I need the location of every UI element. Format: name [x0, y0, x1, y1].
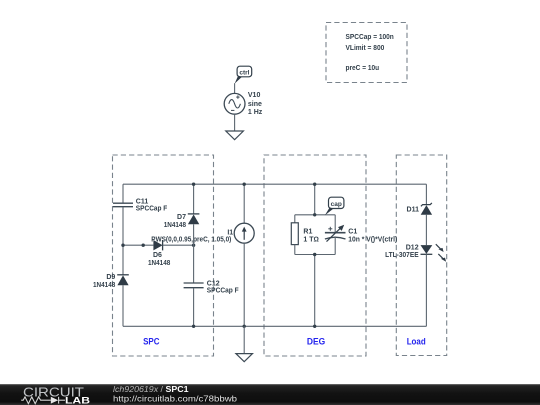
DEG block box (dashed): [264, 155, 366, 356]
svg-text:ctrl: ctrl: [239, 70, 249, 77]
node dot DEG bottom: [313, 325, 316, 328]
svg-text:SPCCap = 100n: SPCCap = 100n: [346, 34, 394, 41]
capacitor C12: [184, 280, 240, 294]
wire D6 row left: [123, 244, 153, 246]
wire I1 lower: [243, 243, 245, 326]
wire C12 lower: [193, 288, 195, 326]
svg-text:D7: D7: [177, 214, 186, 221]
parameter box (dashed): [326, 23, 407, 83]
node dot DEG rail top: [313, 213, 316, 216]
node dot DEG rail bottom: [313, 253, 316, 256]
svg-text:sine: sine: [248, 101, 262, 108]
svg-text:1 Hz: 1 Hz: [248, 109, 263, 116]
node dot left tee: [121, 244, 124, 247]
node dot D6 tee: [192, 244, 195, 247]
node dot D6 anode: [142, 244, 145, 247]
wire left branch lower: [122, 285, 124, 326]
footer bar: [0, 384, 540, 405]
wire D7 to C12: [193, 224, 195, 283]
svg-text:10n * V()*V(ctrl): 10n * V()*V(ctrl): [348, 237, 397, 244]
wire Load lower: [425, 254, 427, 326]
svg-text:LTL-307EE: LTL-307EE: [385, 252, 419, 259]
svg-text:R1: R1: [303, 229, 312, 236]
LED D12: [385, 244, 446, 262]
node dot top D7: [192, 183, 195, 186]
logo resistor-diode line: [21, 397, 65, 404]
node flag cap: [325, 197, 344, 215]
current source I1: [227, 223, 254, 243]
svg-text:1 TΩ: 1 TΩ: [303, 236, 319, 243]
svg-text:SPCCap F: SPCCap F: [207, 288, 239, 295]
wire bottom rail: [123, 325, 426, 327]
wire top rail: [123, 183, 426, 185]
ground (main): [236, 354, 253, 362]
wire V10 to ground: [234, 114, 236, 131]
node flag ctrl: [235, 66, 252, 83]
capacitor C11: [113, 198, 168, 212]
wire Load upper: [425, 184, 427, 204]
ground (V10): [226, 131, 244, 140]
svg-text:C12: C12: [207, 280, 220, 287]
SPC block box (dashed): [113, 155, 214, 356]
svg-text:C1: C1: [348, 229, 357, 236]
svg-text:C11: C11: [136, 198, 149, 205]
svg-text:lch920619x / SPC1: lch920619x / SPC1: [113, 385, 189, 394]
wire ground stem: [243, 326, 245, 353]
svg-text:http://circuitlab.com/c78bbwb: http://circuitlab.com/c78bbwb: [113, 394, 238, 403]
voltage source V10: [224, 92, 263, 116]
svg-text:V10: V10: [248, 92, 261, 99]
zener diode D11: [407, 203, 433, 215]
resistor R1: [291, 215, 319, 255]
svg-text:D11: D11: [407, 207, 420, 214]
svg-text:1N4148: 1N4148: [148, 260, 170, 267]
svg-text:D6: D6: [153, 252, 162, 259]
svg-text:LAB: LAB: [65, 395, 91, 405]
svg-text:VLimit = 800: VLimit = 800: [346, 45, 385, 52]
svg-text:preC = 10u: preC = 10u: [346, 65, 380, 72]
svg-text:DEG: DEG: [307, 337, 325, 347]
svg-text:cap: cap: [331, 201, 342, 208]
svg-text:SPCCap F: SPCCap F: [136, 206, 168, 213]
wire left branch upper: [122, 184, 124, 203]
svg-text:Load: Load: [407, 337, 426, 347]
node dot I1 bottom: [243, 325, 246, 328]
node dot bottom C12: [192, 325, 195, 328]
diode D7: [164, 214, 200, 229]
svg-text:I1: I1: [227, 230, 233, 237]
node dot DEG top: [313, 183, 316, 186]
svg-text:D12: D12: [406, 244, 419, 251]
svg-text:D9: D9: [106, 274, 115, 281]
svg-text:PWS(0,0,0.95,preC, 1.05,0): PWS(0,0,0.95,preC, 1.05,0): [151, 237, 231, 244]
wire DEG bottom rail: [295, 254, 335, 256]
capacitor C1 (variable): [325, 215, 397, 255]
wire DEG down feed: [314, 255, 316, 327]
svg-text:SPC: SPC: [143, 337, 160, 347]
Load block box (dashed): [396, 155, 446, 356]
diode D6: [148, 240, 170, 267]
wire D7 branch upper: [193, 184, 195, 214]
wire DEG feed: [314, 184, 316, 215]
wire ctrl to V10: [234, 83, 236, 93]
wire D11 to D12: [425, 215, 427, 245]
wire I1 upper: [243, 184, 245, 223]
diode D9: [93, 274, 129, 289]
wire DEG top rail: [295, 214, 335, 216]
wire D6 row right: [163, 244, 194, 246]
wire left branch middle: [122, 207, 124, 275]
svg-text:1N4148: 1N4148: [93, 282, 115, 289]
node dot I1 top: [243, 183, 246, 186]
svg-text:1N4148: 1N4148: [164, 222, 186, 229]
